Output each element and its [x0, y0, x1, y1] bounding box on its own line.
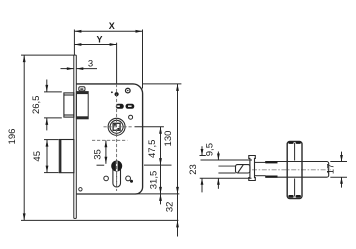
faceplate seam upper — [294, 143, 296, 161]
dimension X line — [74, 30, 142, 33]
extension line right of X (case right edge up) — [142, 30, 144, 89]
key slot (white) — [116, 161, 118, 171]
faceplate seam lower — [294, 179, 296, 197]
extension line keyhole center — [144, 164, 172, 166]
slot bar right (dark) — [126, 104, 135, 109]
svg-text:26,5: 26,5 — [31, 96, 42, 115]
case top extension to 130 dim — [143, 83, 182, 85]
dimension Y line — [74, 43, 116, 46]
slot bar left (dark) — [116, 104, 124, 109]
extension line latch top (9,5 top) — [201, 159, 253, 161]
small circle right of follower — [129, 115, 133, 119]
follower square spindle hole — [113, 123, 120, 130]
extension line Y right / cylinder centerline upper — [116, 43, 118, 84]
extension lines 17 — [330, 161, 347, 163]
svg-text:3: 3 — [88, 58, 93, 69]
wide case bar — [266, 162, 329, 178]
svg-text:17: 17 — [325, 164, 336, 175]
side latch bolt (beveled tip) — [218, 165, 250, 173]
svg-text:23: 23 — [188, 164, 199, 175]
small dot next to bottom-right screw — [130, 180, 133, 183]
follower horizontal centerline — [104, 126, 132, 128]
deadbolt (thrown, front view) — [59, 140, 74, 173]
extension line left of X/Y (faceplate top corner up) — [73, 30, 75, 56]
faceplate (side view tall bar) — [287, 142, 302, 199]
dimension 31,5 — [159, 165, 162, 204]
extension line left of keyhole center — [97, 164, 105, 166]
keyhole top circle (dark) — [111, 161, 122, 172]
follower square corner marks — [114, 124, 119, 130]
extension under latch (23 and 9,5 bottom) — [200, 177, 252, 179]
screw hole bottom-right — [126, 176, 131, 181]
dimension 23 — [201, 146, 204, 192]
latch bolt head (protruding) — [64, 93, 74, 117]
T-piece (latch guide, side view) — [249, 156, 256, 181]
dimension 32 — [176, 194, 179, 237]
svg-text:45: 45 — [32, 151, 43, 162]
lock case outline — [76, 84, 142, 194]
latch bevel line — [238, 165, 244, 173]
extension line bottom shared (196 and 32) — [21, 219, 178, 221]
extension lines 26,5 (latch top/bottom) — [44, 91, 62, 93]
svg-text:35: 35 — [93, 149, 104, 160]
svg-text:32: 32 — [164, 202, 175, 213]
dimension 130 — [176, 84, 179, 194]
screw head filled — [115, 92, 119, 96]
keyhole cylinder (euro profile) body — [113, 166, 121, 187]
faceplate (front view, 3mm strip) — [74, 55, 77, 218]
screw hole bottom-left — [104, 176, 109, 181]
svg-text:Y: Y — [96, 35, 102, 45]
svg-text:47,5: 47,5 — [147, 140, 158, 159]
narrow case bar segment — [255, 162, 266, 175]
dashed reference line for 35 dim — [92, 139, 127, 141]
screw ring with dot — [126, 88, 131, 93]
svg-text:196: 196 — [7, 129, 18, 145]
svg-text:9,5: 9,5 — [205, 143, 216, 156]
case bottom extension to 130/32 dims — [136, 193, 180, 195]
23 top short extension — [200, 155, 206, 157]
vertical centerline (dashed through case) — [116, 84, 118, 191]
svg-text:130: 130 — [163, 131, 174, 147]
faceplate thick top edge — [288, 142, 301, 198]
side view centerline — [252, 169, 331, 171]
dimension 17 — [340, 152, 343, 188]
latch tongue top line — [218, 165, 235, 167]
dimension 26,5 — [45, 80, 48, 131]
extension lines 45 (deadbolt top/bottom) — [44, 139, 59, 141]
small tab at case top — [79, 87, 85, 91]
dimension 196 line — [23, 55, 26, 220]
dimension 45 — [46, 140, 49, 173]
dimension 9,5 — [217, 152, 220, 189]
follower (spindle hub) rings — [108, 118, 125, 135]
latch guide box inside case — [76, 92, 88, 119]
thick edge segments on case bar — [266, 161, 278, 178]
svg-text:31,5: 31,5 — [148, 171, 159, 190]
latch tongue bottom line — [218, 172, 235, 174]
dimension 47,5 — [159, 127, 162, 165]
screw dot top-left — [111, 91, 113, 93]
extension line spindle center (47,5 top) — [135, 126, 164, 128]
extension line faceplate top — [21, 54, 76, 56]
small circle case bottom-left — [79, 188, 82, 191]
dimension 3 (faceplate thickness) — [61, 67, 98, 70]
dimension 35 — [105, 140, 108, 164]
svg-text:X: X — [109, 21, 115, 31]
